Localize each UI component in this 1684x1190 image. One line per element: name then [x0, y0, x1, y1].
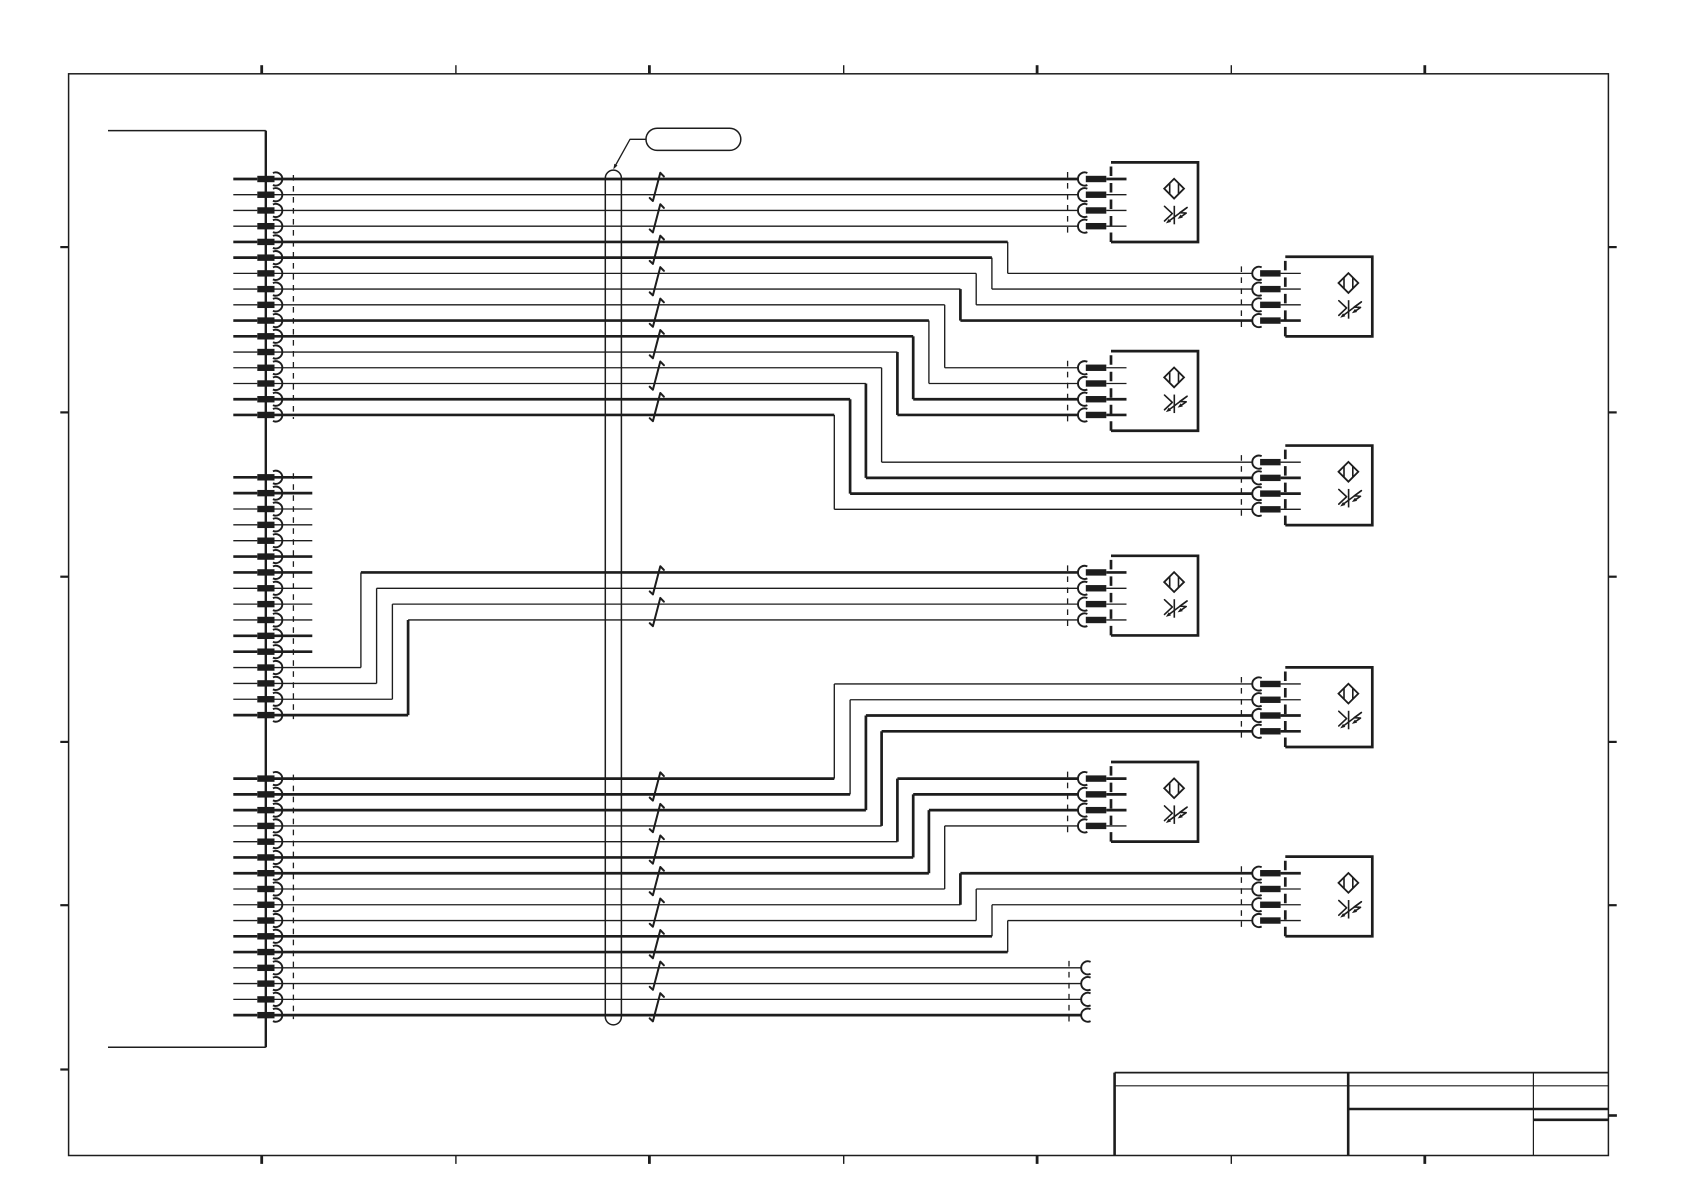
terminal X3:12	[233, 945, 282, 958]
sensor B4 connector boundary	[1240, 455, 1242, 516]
terminal X2:4	[233, 518, 282, 531]
sensor B3 pin 2	[1078, 377, 1127, 390]
sensor B2 connector boundary	[1240, 266, 1242, 327]
sensor B4 receiver symbol	[1339, 489, 1362, 508]
terminal X3:10	[233, 914, 282, 927]
wire X3:11 to B8:3	[275, 905, 1254, 937]
frame zone ticks top	[262, 65, 1425, 74]
wire stub X2:11	[275, 634, 313, 637]
terminal X1:15	[233, 393, 282, 406]
terminal X1:2	[233, 188, 282, 201]
conductor pair marker 8	[650, 393, 664, 421]
cable W1	[605, 170, 621, 1025]
wire X1:10 to B3:2	[275, 321, 1079, 384]
sensor B6 pin 1	[1252, 677, 1301, 690]
connector X3 boundary	[292, 775, 294, 1020]
terminal X1:3	[233, 204, 282, 217]
sensor B3 pin 1	[1078, 361, 1127, 374]
sensor B2 box	[1285, 257, 1372, 337]
wire X1:4 to B1:4	[275, 225, 1079, 227]
conductor pair marker 5	[650, 299, 664, 327]
sensor B7 pin 3	[1078, 804, 1127, 817]
conductor pair marker 16	[650, 930, 664, 958]
sensor B3 pin 4	[1078, 408, 1127, 421]
wire X1:3 to B1:3	[275, 209, 1079, 211]
sensor B4 box	[1285, 446, 1372, 526]
spare connector pin 3	[1081, 993, 1090, 1006]
wire stub X2:1	[275, 476, 313, 479]
sensor B7 pin 4	[1078, 819, 1127, 832]
frame zone ticks bottom	[262, 1156, 1425, 1164]
wire X1:6 to B2:2	[275, 258, 1254, 289]
sensor B3 connector boundary	[1067, 361, 1069, 422]
sensor B5 pin 4	[1078, 613, 1127, 626]
wire X3:2 to B6:2	[275, 700, 1254, 795]
sensor B4 pin 1	[1252, 456, 1301, 469]
sensor B8 connector boundary	[1240, 866, 1242, 927]
sensor B8 receiver symbol	[1339, 900, 1362, 919]
terminal X2:3	[233, 502, 282, 515]
wire X1:7 to B2:3	[275, 273, 1254, 304]
terminal X3:1	[233, 772, 282, 785]
sensor B1 pin 4	[1078, 220, 1127, 233]
terminal X1:12	[233, 345, 282, 358]
wire X1:12 to B3:4	[275, 352, 1079, 415]
wire X3:4 to B6:4	[275, 731, 1254, 826]
wire X3:12 to B8:4	[275, 921, 1254, 953]
spare connector boundary	[1068, 961, 1070, 1022]
wire X3:13 spare	[275, 967, 1082, 969]
terminal X3:9	[233, 898, 282, 911]
terminal X3:14	[233, 977, 282, 990]
terminal X1:14	[233, 377, 282, 390]
terminal X1:7	[233, 267, 282, 280]
frame zone ticks left	[60, 247, 68, 1069]
terminal X1:8	[233, 283, 282, 296]
terminal X2:5	[233, 534, 282, 547]
sensor B8 box	[1285, 857, 1372, 937]
wire X3:6 to B7:2	[275, 794, 1079, 857]
sensor B6 pin 3	[1252, 709, 1301, 722]
wire X1:5 to B2:1	[275, 242, 1254, 273]
sensor B1 pin 2	[1078, 188, 1127, 201]
device edge bottom	[108, 1046, 266, 1048]
sensor B6 connector boundary	[1240, 677, 1242, 738]
wire stub X2:9	[275, 603, 313, 605]
wire X1:1 to B1:1	[275, 178, 1079, 181]
connector X2 boundary	[292, 473, 294, 719]
terminal X2:6	[233, 550, 282, 563]
sensor B3 pin 3	[1078, 393, 1127, 406]
terminal X3:13	[233, 961, 282, 974]
terminal X1:9	[233, 298, 282, 311]
wire X1:8 to B2:4	[275, 289, 1254, 320]
conductor pair marker 18	[650, 993, 664, 1021]
sensor B2 pin 2	[1252, 283, 1301, 296]
sensor B8 pin 1	[1252, 867, 1301, 880]
title block	[1115, 1073, 1609, 1156]
terminal X3:5	[233, 835, 282, 848]
spare connector pin 1	[1081, 961, 1090, 974]
sensor B7 pin 1	[1078, 772, 1127, 785]
sensor B6 pin 2	[1252, 693, 1301, 706]
wire X1:9 to B3:1	[275, 305, 1079, 368]
terminal X2:12	[233, 645, 282, 658]
sensor B6 receiver symbol	[1339, 711, 1362, 730]
wire stub X2:8	[275, 587, 313, 589]
sensor B2 receiver symbol	[1339, 300, 1362, 319]
spare connector pin 4	[1081, 1009, 1090, 1022]
wire X3:8 to B7:4	[275, 826, 1079, 889]
conductor pair marker 7	[650, 362, 664, 390]
wire X3:16 spare	[275, 1014, 1082, 1017]
terminal X2:11	[233, 629, 282, 642]
terminal X3:15	[233, 993, 282, 1006]
sensor B2 pin 1	[1252, 267, 1301, 280]
wire stub X2:12	[275, 650, 313, 653]
sensor B1 connector boundary	[1067, 172, 1069, 233]
sensor B7 box	[1111, 762, 1198, 842]
terminal X3:16	[233, 1009, 282, 1022]
terminal X2:9	[233, 598, 282, 611]
terminal X3:7	[233, 867, 282, 880]
spare connector pin 2	[1081, 977, 1090, 990]
sensor B5 pin 3	[1078, 598, 1127, 611]
terminal X2:13	[233, 661, 282, 674]
cable label leader	[613, 139, 646, 169]
sensor B8 pin 4	[1252, 914, 1301, 927]
terminal X1:1	[233, 172, 282, 185]
wire X1:15 to B4:3	[275, 399, 1254, 493]
conductor pair marker 10	[650, 598, 664, 626]
sensor B5 pin 2	[1078, 582, 1127, 595]
sensor B8 pin 3	[1252, 898, 1301, 911]
terminal X2:15	[233, 693, 282, 706]
wire X2:16 to B5:4	[275, 620, 1079, 715]
wire X3:15 spare	[275, 998, 1082, 1000]
conductor pair marker 12	[650, 804, 664, 832]
wire X3:7 to B7:3	[275, 810, 1079, 873]
terminal X1:6	[233, 251, 282, 264]
sensor B2 emitter symbol	[1339, 273, 1359, 293]
sensor B4 pin 2	[1252, 471, 1301, 484]
sensor B7 emitter symbol	[1164, 778, 1184, 798]
wire X2:15 to B5:3	[275, 604, 1079, 699]
terminal X2:2	[233, 487, 282, 500]
terminal bus X1	[265, 131, 267, 1048]
terminal X1:10	[233, 314, 282, 327]
conductor pair marker 13	[650, 835, 664, 863]
sensor B4 pin 4	[1252, 503, 1301, 516]
conductor pair marker 17	[650, 962, 664, 990]
terminal X3:4	[233, 819, 282, 832]
wire X1:16 to B4:4	[275, 415, 1254, 509]
wire X1:14 to B4:2	[275, 383, 1254, 477]
wire stub X2:3	[275, 508, 313, 510]
terminal X3:11	[233, 930, 282, 943]
cable label W1	[646, 128, 741, 150]
conductor pair marker 2	[650, 204, 664, 232]
sensor B1 box	[1111, 162, 1198, 242]
terminal X1:11	[233, 330, 282, 343]
wire X2:13 to B5:1	[275, 572, 1079, 667]
wire stub X2:10	[275, 619, 313, 621]
sensor B5 box	[1111, 556, 1198, 636]
wire X1:11 to B3:3	[275, 336, 1079, 399]
sensor B8 pin 2	[1252, 882, 1301, 895]
terminal X1:13	[233, 361, 282, 374]
sensor B6 box	[1285, 667, 1372, 747]
sensor B6 emitter symbol	[1339, 684, 1359, 704]
conductor pair marker 6	[650, 330, 664, 358]
terminal X3:8	[233, 882, 282, 895]
sensor B5 emitter symbol	[1164, 572, 1184, 592]
wire X3:9 to B8:1	[275, 873, 1254, 905]
wire X3:10 to B8:2	[275, 889, 1254, 921]
sensor B7 connector boundary	[1067, 772, 1069, 833]
wire X1:13 to B4:1	[275, 368, 1254, 462]
terminal X3:6	[233, 851, 282, 864]
conductor pair marker 1	[650, 173, 664, 201]
wire X2:14 to B5:2	[275, 588, 1079, 683]
wire X3:5 to B7:1	[275, 779, 1079, 842]
conductor pair marker 4	[650, 267, 664, 295]
wire stub X2:5	[275, 540, 313, 542]
sensor B1 pin 1	[1078, 172, 1127, 185]
sensor B4 emitter symbol	[1339, 462, 1359, 482]
conductor pair marker 14	[650, 867, 664, 895]
terminal X3:2	[233, 788, 282, 801]
wire X3:1 to B6:1	[275, 684, 1254, 779]
sensor B2 pin 3	[1252, 298, 1301, 311]
wire X1:2 to B1:2	[275, 194, 1079, 196]
device edge top	[108, 130, 266, 132]
wire stub X2:2	[275, 492, 313, 495]
sensor B5 connector boundary	[1067, 565, 1069, 627]
wire stub X2:7	[275, 571, 313, 574]
terminal X1:16	[233, 408, 282, 421]
terminal X1:5	[233, 235, 282, 248]
terminal X2:14	[233, 677, 282, 690]
frame zone ticks right	[1608, 247, 1617, 1115]
sensor B1 receiver symbol	[1165, 206, 1188, 225]
sensor B1 emitter symbol	[1164, 179, 1184, 199]
conductor pair marker 11	[650, 772, 664, 800]
sensor B4 pin 3	[1252, 487, 1301, 500]
terminal X2:10	[233, 613, 282, 626]
sensor B5 pin 1	[1078, 566, 1127, 579]
conductor pair marker 3	[650, 236, 664, 264]
sensor B8 emitter symbol	[1339, 873, 1359, 893]
terminal X3:3	[233, 804, 282, 817]
terminal X2:1	[233, 471, 282, 484]
sensor B1 pin 3	[1078, 204, 1127, 217]
wire stub X2:6	[275, 555, 313, 558]
connector X1 boundary	[292, 175, 294, 419]
wire stub X2:4	[275, 524, 313, 526]
sensor B3 emitter symbol	[1164, 368, 1184, 388]
sensor B6 pin 4	[1252, 725, 1301, 738]
sensor B2 pin 4	[1252, 314, 1301, 327]
sensor B7 pin 2	[1078, 788, 1127, 801]
wire X3:14 spare	[275, 983, 1082, 985]
terminal X1:4	[233, 220, 282, 233]
terminal X2:7	[233, 566, 282, 579]
wire X3:3 to B6:3	[275, 716, 1254, 811]
terminal X2:16	[233, 708, 282, 721]
sensor B5 receiver symbol	[1165, 599, 1188, 618]
sensor B3 box	[1111, 351, 1198, 431]
conductor pair marker 9	[650, 566, 664, 594]
sensor B7 receiver symbol	[1165, 805, 1188, 824]
conductor pair marker 15	[650, 899, 664, 927]
sensor B3 receiver symbol	[1165, 395, 1188, 414]
terminal X2:8	[233, 582, 282, 595]
